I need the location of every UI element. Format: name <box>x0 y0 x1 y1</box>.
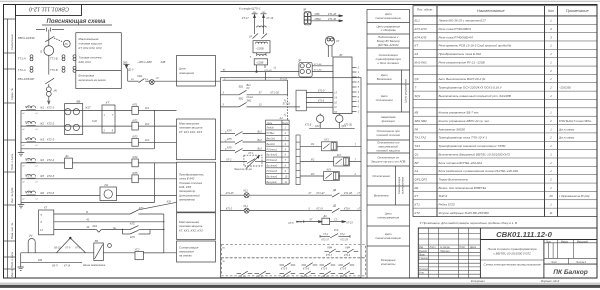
svg-text:НL1: НL1 <box>244 205 249 208</box>
svg-text:х2: х2 <box>21 113 25 115</box>
svg-text:6: 6 <box>285 155 287 157</box>
svg-text:1: 1 <box>550 94 552 98</box>
svg-text:х2: х2 <box>21 166 25 168</box>
svg-text:43: 43 <box>86 225 89 229</box>
svg-text:КЛ2: КЛ2 <box>133 118 138 122</box>
parallel contacts KL2 KL3 <box>123 229 131 231</box>
svg-text:Примечание: Примечание <box>566 8 590 13</box>
svg-text:КТ-19: КТ-19 <box>267 17 274 20</box>
svg-text:ТТ1-А: ТТ1-А <box>25 105 33 109</box>
gas protection jumper row <box>320 234 350 238</box>
input transducer block BB <box>65 104 83 135</box>
svg-text:Выход1: Выход1 <box>267 143 276 146</box>
svg-text:ГЗ-1: ГЗ-1 <box>323 234 328 236</box>
svg-text:КТ2-1: КТ2-1 <box>47 106 55 110</box>
svg-text:ТТ1-С: ТТ1-С <box>25 121 33 125</box>
svg-text:КТ1-Э7: КТ1-Э7 <box>317 192 326 195</box>
bell ЗВ <box>94 243 104 261</box>
wire SB2 row <box>220 106 239 108</box>
svg-text:ТТ1-А: ТТ1-А <box>18 57 26 61</box>
svg-text:КЛ4: КЛ4 <box>227 130 232 133</box>
svg-text:Вкл.Эл1: Вкл.Эл1 <box>267 138 276 140</box>
svg-text:Ж1Т: Ж1Т <box>84 106 91 110</box>
svg-text:1: 1 <box>550 52 552 56</box>
svg-text:КТ1-19: КТ1-19 <box>238 277 246 279</box>
wire CT row B <box>21 141 132 143</box>
connector block ЗР (telecontrol) <box>304 12 343 25</box>
svg-text:КУ2: КУ2 <box>337 154 342 157</box>
svg-text:КТ1-37: КТ1-37 <box>322 240 330 242</box>
svg-text:Трансформатор ОСУ-220/24УЗ ООУ: Трансформатор ОСУ-220/24УЗ ООУ1-0,16.У <box>439 86 503 90</box>
svg-text:5: 5 <box>285 149 287 151</box>
wire rail feed <box>265 72 267 81</box>
svg-text:5: 5 <box>358 86 360 89</box>
svg-text:КТ1-2Б: КТ1-2Б <box>344 124 352 126</box>
svg-text:КТ1-б: КТ1-б <box>303 269 310 271</box>
svg-text:амперметр: амперметр <box>179 198 195 202</box>
svg-text:Цепи управления: Цепи управления <box>404 79 408 103</box>
svg-text:3: 3 <box>550 27 552 31</box>
svg-text:ЭТ1-13: ЭТ1-13 <box>283 104 291 106</box>
svg-text:КГ: КГ <box>336 39 340 43</box>
svg-text:х1: х1 <box>35 198 38 200</box>
svg-text:~220В: ~220В <box>256 47 264 51</box>
svg-text:КТ1-Б: КТ1-Б <box>305 124 312 126</box>
svg-text:КТ1-2: КТ1-2 <box>226 207 233 210</box>
svg-text:КВ: КВ <box>415 111 419 115</box>
svg-text:контакты: контакты <box>381 262 396 266</box>
svg-text:Реле тока РТ40/10БУ4: Реле тока РТ40/10БУ4 <box>439 27 472 31</box>
svg-text:с7: с7 <box>358 192 361 195</box>
svg-text:КТ1-9: КТ1-9 <box>344 255 351 257</box>
svg-text:ТТ1-В: ТТ1-В <box>25 137 33 141</box>
svg-text:КТ2-6: КТ2-6 <box>47 191 55 195</box>
wire collector KL1-KL3 <box>21 148 154 150</box>
svg-text:1: 1 <box>550 19 552 23</box>
svg-text:телесигнализации: телесигнализации <box>375 16 401 20</box>
svg-text:✳ Примечание: Для каждой кам: ✳ Примечание: Для каждой камеры переходн… <box>419 221 517 225</box>
svg-text:КТ1-2Х: КТ1-2Х <box>280 78 288 80</box>
svg-text:EL1: EL1 <box>415 19 421 23</box>
svg-text:Блокировка: Блокировка <box>79 74 95 78</box>
svg-text:Ж1: Ж1 <box>39 106 44 110</box>
svg-text:3: 3 <box>223 104 225 107</box>
svg-text:х1: х1 <box>35 129 38 131</box>
svg-text:КТ-15: КТ-15 <box>346 222 353 225</box>
svg-text:КТ, КХ1 КХ2, КХ3: КТ, КХ1 КХ2, КХ3 <box>79 46 102 50</box>
svg-text:х1: х1 <box>273 66 277 69</box>
svg-text:Максимальная: Максимальная <box>79 37 99 41</box>
svg-text:РА: РА <box>415 127 419 131</box>
svg-text:202: 202 <box>261 12 266 14</box>
svg-text:SB1,SB2: SB1,SB2 <box>415 119 428 123</box>
svg-text:Кол: Кол <box>548 9 554 13</box>
svg-text:Линия силового трансформатора: Линия силового трансформатора <box>486 247 536 251</box>
svg-text:ИЗ-П: ИЗ-П <box>52 266 58 268</box>
auxiliary relays КУ1 КУ2 КУ3 <box>300 139 361 181</box>
svg-text:КУ: КУ <box>247 87 250 90</box>
svg-text:КТ1-26: КТ1-26 <box>328 13 337 16</box>
svg-text:Взам. инв. №: Взам. инв. № <box>10 223 14 239</box>
svg-text:10: 10 <box>285 176 288 178</box>
svg-text:Лист: Лист <box>550 262 557 264</box>
spare contact units row 3 <box>237 271 355 279</box>
parts list table <box>413 6 597 217</box>
svg-text:Цепь: Цепь <box>267 123 273 125</box>
svg-text:Вх3: Вх3 <box>258 148 263 151</box>
svg-text:Любой: Любой <box>266 127 275 130</box>
svg-text:х1: х1 <box>35 166 38 168</box>
svg-text:8: 8 <box>41 221 43 224</box>
svg-text:7у: 7у <box>284 115 287 117</box>
spare contacts dashed boxes <box>222 244 366 276</box>
svg-text:Блок питания БП/ТЕL-220-02А: Блок питания БП/ТЕL-220-02А <box>439 161 483 165</box>
svg-text:Лампа МО-36-25 с патроном Е27: Лампа МО-36-25 с патроном Е27 <box>438 19 487 23</box>
svg-text:А1: А1 <box>414 169 419 173</box>
svg-text:1: 1 <box>550 144 552 148</box>
svg-text:Кнопка управления SB-7 зел.: Кнопка управления SB-7 зел. <box>439 111 480 115</box>
svg-text:телеизмерения: телеизмерения <box>377 215 399 219</box>
svg-text:Ж6: Ж6 <box>39 191 44 195</box>
svg-text:1Р: 1Р <box>249 36 252 39</box>
relay coils KL1 KL2 KL3 <box>132 107 138 115</box>
right label column boxes <box>367 10 410 279</box>
svg-text:Подп. и дата: Подп. и дата <box>10 153 14 170</box>
svg-text:Масштаб: Масштаб <box>577 241 588 243</box>
svg-text:Вы дткл2: Вы дткл2 <box>267 165 278 168</box>
top scan line <box>0 0 600 2</box>
lamp branch wire <box>128 80 139 82</box>
transformer T2 <box>257 54 267 56</box>
svg-text:SВ2: SВ2 <box>239 98 244 101</box>
svg-text:КТ1-5: КТ1-5 <box>281 269 288 271</box>
svg-text:Д1: Д1 <box>155 78 160 80</box>
svg-text:Защите тр-ра и от АПВ: Защите тр-ра и от АПВ <box>371 159 405 163</box>
svg-text:освещения: освещения <box>179 71 194 75</box>
svg-text:КТ1-7: КТ1-7 <box>326 255 333 257</box>
svg-text:х1: х1 <box>35 182 38 184</box>
svg-text:2: 2 <box>284 133 287 135</box>
svg-text:РВз-10/630Р: РВз-10/630Р <box>18 77 35 81</box>
svg-text:8: 8 <box>358 81 360 84</box>
svg-text:Т.контр.: Т.контр. <box>419 258 429 260</box>
svg-text:2: 2 <box>549 177 552 181</box>
svg-text:Шина заземления: Шина заземления <box>83 263 106 267</box>
svg-text:РЗ дткл2: РЗ дткл2 <box>267 159 278 162</box>
svg-text:Вх2: Вх2 <box>258 139 263 142</box>
svg-text:Н.контр.: Н.контр. <box>419 269 429 271</box>
svg-text:В 5К2 Выбор 5 сигнал SB3№: В 5К2 Выбор 5 сигнал SB3№ <box>559 120 592 123</box>
svg-text:8: 8 <box>112 130 114 133</box>
svg-text:1: 1 <box>550 186 552 190</box>
svg-text:Включение: Включение <box>374 194 389 198</box>
scan bottom bar <box>0 285 600 288</box>
device БУ box <box>333 57 352 114</box>
wire timer out 5 <box>54 213 130 215</box>
svg-text:КТ1-8: КТ1-8 <box>321 269 328 271</box>
svg-text:КкВ: КкВ <box>38 260 42 262</box>
svg-text:ДБ: ДБ <box>332 189 337 192</box>
control section enclosure <box>220 78 361 278</box>
svg-text:токовая защита: токовая защита <box>79 41 103 45</box>
svg-text:42: 42 <box>86 218 89 222</box>
svg-text:Блок разделения и размножения: Блок разделения и размножения сигнал РН/… <box>439 169 519 173</box>
svg-text:Поз. обозн.: Поз. обозн. <box>417 8 433 12</box>
relay coils KL4 KL5 <box>132 159 138 167</box>
svg-text:SВ1: SВ1 <box>239 85 244 88</box>
time relay KT box <box>102 105 115 133</box>
collector wire of KL1-KL3 group <box>21 110 154 202</box>
terminal pin strip <box>296 135 300 185</box>
ДА measurement shunt row <box>304 218 346 224</box>
svg-text:Утв.: Утв. <box>419 273 425 275</box>
svg-text:КТ2-2: КТ2-2 <box>47 121 55 125</box>
svg-text:ИЗ-10: ИЗ-10 <box>54 247 61 249</box>
svg-text:КЛ4: КЛ4 <box>133 155 138 159</box>
svg-text:Масса: Масса <box>561 241 569 243</box>
svg-text:2: 2 <box>549 69 552 73</box>
svg-text:Справ. №: Справ. № <box>10 88 14 100</box>
svg-text:КТ1-Э8: КТ1-Э8 <box>344 192 353 195</box>
svg-text:9: 9 <box>285 171 287 173</box>
svg-text:11: 11 <box>285 182 288 184</box>
svg-text:ЗНР-6: ЗНР-6 <box>439 194 448 198</box>
svg-text:14: 14 <box>334 96 337 99</box>
svg-text:КТ-19: КТ-19 <box>64 266 71 268</box>
svg-text:Трансформатор земляной сигнали: Трансформатор земляной сигнализации ТЗЛМ <box>439 144 506 148</box>
svg-text:Термо-Выключатель: Термо-Выключатель <box>439 177 469 181</box>
svg-text:Пров.: Пров. <box>419 255 425 257</box>
svg-text:11: 11 <box>334 107 337 109</box>
frame main left line <box>15 5 17 279</box>
svg-text:КЛ1: КЛ1 <box>133 103 138 107</box>
svg-text:КТ2-4: КТ2-4 <box>47 158 55 162</box>
wire timer out 8 <box>54 221 164 223</box>
contact block Дк <box>65 158 73 168</box>
svg-text:КТ2-5: КТ2-5 <box>47 174 55 178</box>
svg-text:КТ1-40: КТ1-40 <box>328 18 337 21</box>
document name <box>484 247 541 266</box>
svg-text:НL2: НL2 <box>244 190 249 193</box>
svg-text:Конт: Конт <box>282 123 288 125</box>
svg-text:СВ62: СВ62 <box>315 18 322 21</box>
svg-text:5: 5 <box>309 208 311 211</box>
svg-text:Наименование: Наименование <box>477 8 505 13</box>
svg-text:Сх8: Сх8 <box>92 119 97 123</box>
svg-text:КН1-КН2: КН1-КН2 <box>415 60 428 64</box>
svg-text:Вых.реле: Вых.реле <box>267 182 278 184</box>
svg-text:1: 1 <box>104 114 106 117</box>
svg-text:КТ1-6: КТ1-6 <box>318 101 325 103</box>
svg-text:КТ1-Э5: КТ1-Э5 <box>314 64 322 66</box>
svg-text:КН1: КН1 <box>93 224 98 228</box>
title block <box>418 228 597 278</box>
wire CT row A <box>21 109 132 111</box>
svg-text:Выключатель клавишный открытой: Выключатель клавишный открытой уст. 6А/2… <box>439 94 511 98</box>
svg-text:[А]: [А] <box>28 234 32 238</box>
svg-text:№ докум.: № докум. <box>440 246 450 249</box>
svg-text:КЛ5: КЛ5 <box>227 138 232 141</box>
voltage meter Рн <box>63 40 70 47</box>
svg-text:57: 57 <box>259 92 262 95</box>
svg-text:05: 05 <box>222 261 225 263</box>
incoming line dashes <box>36 29 45 31</box>
svg-text:Токовая отсечка: Токовая отсечка <box>79 56 102 60</box>
connector block ЗР (signals) <box>299 62 333 77</box>
svg-text:Тк: Тк <box>284 101 287 103</box>
svg-text:ЗР: ЗР <box>303 9 307 12</box>
svg-text:КТ, КХ1 КХ2, КХ3: КТ, КХ1 КХ2, КХ3 <box>179 130 202 134</box>
УС2 box <box>135 251 143 259</box>
svg-text:4: 4 <box>358 101 360 104</box>
wire timer out 13 <box>54 229 97 231</box>
svg-text:ВР: ВР <box>415 161 419 165</box>
svg-text:КТ: КТ <box>415 194 420 198</box>
svg-text:РЗ дткл1: РЗ дткл1 <box>267 148 278 151</box>
svg-text:1: 1 <box>550 127 552 131</box>
svg-text:5: 5 <box>41 214 43 217</box>
svg-text:Ж2: Ж2 <box>39 121 44 125</box>
svg-text:1: 1 <box>550 44 552 48</box>
svg-text:РА: РА <box>105 183 109 187</box>
svg-text:КТ-9: КТ-9 <box>66 247 72 249</box>
svg-text:ДБ: ДБ <box>332 204 337 207</box>
svg-text:1: 1 <box>285 128 287 130</box>
svg-text:и блок питания: и блок питания <box>378 61 400 65</box>
svg-text:Ж2: Ж2 <box>310 158 315 161</box>
svg-text:РЗ Вых: РЗ Вых <box>267 133 276 135</box>
timer block KT2 <box>39 210 54 235</box>
explanatory label box <box>76 33 122 89</box>
svg-text:КТ-и: КТ-и <box>76 247 82 249</box>
svg-text:КТ-17: КТ-17 <box>242 17 249 20</box>
svg-text:2: 2 <box>103 130 106 133</box>
svg-text:QF1,QF2: QF1,QF2 <box>415 177 428 181</box>
svg-text:БУ: БУ <box>340 53 344 57</box>
svg-text:х2: х2 <box>21 129 25 131</box>
svg-text:1: 1 <box>550 77 552 81</box>
svg-text:Листов 1: Листов 1 <box>575 262 587 264</box>
svg-text:QF1: QF1 <box>315 126 320 128</box>
spare contact units row 1 <box>222 247 358 257</box>
svg-text:Инв №: Инв № <box>10 269 14 277</box>
transformer T1 <box>257 26 267 28</box>
svg-text:Включ. для подключения БПВ/ТЕL: Включ. для подключения БПВ/ТЕL <box>439 186 487 190</box>
svg-text:Кп2: Кп2 <box>145 123 150 126</box>
svg-text:Т: Т <box>415 86 418 90</box>
svg-text:Выключатель Вакуумный ВВ/ТЕL-1: Выключатель Вакуумный ВВ/ТЕL-10-20/1000У… <box>439 152 511 156</box>
breaker Q <box>44 46 54 56</box>
svg-text:27: 27 <box>308 192 312 195</box>
DA row left tail <box>297 221 304 223</box>
svg-text:токовой защиты: токовой защиты <box>376 148 401 152</box>
svg-text:13: 13 <box>334 92 337 94</box>
svg-text:А1: А1 <box>279 116 284 120</box>
svg-text:КТ: КТ <box>44 206 48 210</box>
node diagonals <box>69 237 71 239</box>
svg-text:Трансформатор тока ТЛО-10-Х-1: Трансформатор тока ТЛО-10-Х-1 <box>439 136 488 140</box>
wire alarm drop <box>163 214 165 253</box>
svg-text:телесигнализации: телесигнализации <box>375 236 401 240</box>
svg-text:КЛ2: КЛ2 <box>130 222 135 226</box>
svg-text:1: 1 <box>550 111 552 115</box>
svg-text:11: 11 <box>549 211 552 215</box>
svg-text:КТ1-22: КТ1-22 <box>301 277 309 279</box>
svg-text:Док по заказу: Док по заказу <box>558 128 575 131</box>
svg-text:Ж3: Ж3 <box>39 138 44 142</box>
svg-text:05: 05 <box>222 248 225 250</box>
svg-text:[А]: [А] <box>53 89 57 93</box>
svg-text:Реле времени РСВ 13-18-3: Реле времени РСВ 13-18-3 Свой краткий пр… <box>439 44 512 48</box>
svg-text:Жгуты наборные ЗН25-6Ф-250/300: Жгуты наборные ЗН25-6Ф-250/300 <box>438 211 490 215</box>
svg-text:1: 1 <box>550 203 552 207</box>
svg-text:Амперметр Э8030: Амперметр Э8030 <box>438 127 466 131</box>
svg-text:Кнопки управления АВЛС-22 кр.: Кнопки управления АВЛС-22 кр. зел. <box>439 119 490 123</box>
svg-text:и обогрева: и обогрева <box>381 28 396 32</box>
svg-text:Формат А4х3: Формат А4х3 <box>541 279 560 283</box>
svg-text:~220В: ~220В <box>256 61 264 65</box>
svg-text:24В: 24В <box>160 60 166 64</box>
alarm coil [A] <box>18 237 177 270</box>
dashed link to Рн <box>54 38 62 42</box>
gas relay КГ <box>325 36 334 57</box>
svg-text:КТ-5: КТ-5 <box>297 221 303 224</box>
svg-text:1: 1 <box>550 152 552 156</box>
svg-text:КТ1: КТ1 <box>415 203 421 207</box>
transformer protection trip contact <box>220 155 265 168</box>
svg-text:КЛ4,КЛ5: КЛ4,КЛ5 <box>415 35 427 39</box>
svg-text:ГЗ-2: ГЗ-2 <box>340 234 345 236</box>
svg-text:QF: QF <box>415 77 419 81</box>
svg-text:КА: КА <box>415 52 419 56</box>
svg-text:ТА1,ТА2: ТА1,ТА2 <box>415 136 427 140</box>
svg-text:х2: х2 <box>21 182 25 184</box>
svg-text:3: 3 <box>223 92 225 95</box>
wire CT row C <box>21 125 132 127</box>
wire 220V feed bus <box>220 71 299 73</box>
svg-text:КЕ: КЕ <box>415 186 420 190</box>
svg-text:а1: а1 <box>223 69 226 72</box>
svg-text:4: 4 <box>285 143 287 146</box>
wire alarm bus <box>21 252 94 254</box>
svg-text:х2: х2 <box>21 198 25 200</box>
svg-text:20: 20 <box>548 194 553 198</box>
svg-text:Изм: Изм <box>419 247 424 249</box>
svg-text:Вы дткл3: Вы дткл3 <box>267 175 278 178</box>
svg-text:13: 13 <box>40 229 43 232</box>
wire SB1 row <box>220 94 239 96</box>
svg-text:КТ2-3: КТ2-3 <box>47 138 55 142</box>
svg-text:ДА: ДА <box>323 215 328 218</box>
svg-text:Вх1: Вх1 <box>258 131 263 134</box>
svg-text:2: 2 <box>354 173 357 176</box>
svg-text:1: 1 <box>358 110 360 113</box>
svg-text:включения на земле: включения на земле <box>79 78 107 82</box>
svg-text:Д1-9: Д1-9 <box>127 70 134 72</box>
svg-text:380: 380 <box>123 60 128 64</box>
svg-text:КТ1-21: КТ1-21 <box>281 277 289 279</box>
svg-text:Ж5: Ж5 <box>39 174 44 178</box>
svg-text:СВК01.111.12-0: СВК01.111.12-0 <box>28 6 69 12</box>
main feeder vertical <box>48 30 50 46</box>
svg-text:КТ1-28: КТ1-28 <box>341 240 349 242</box>
wire control rail <box>222 79 287 81</box>
svg-text:Реле тока РТ40/50БУ4Л: Реле тока РТ40/50БУ4Л <box>439 35 474 39</box>
svg-text:Дк: Дк <box>65 154 70 158</box>
svg-text:КТ, КХ1, КХ2, КХ3: КТ, КХ1, КХ2, КХ3 <box>179 228 203 232</box>
svg-text:6: 6 <box>358 106 360 109</box>
svg-text:Сигнализация: Сигнализация <box>397 176 401 194</box>
